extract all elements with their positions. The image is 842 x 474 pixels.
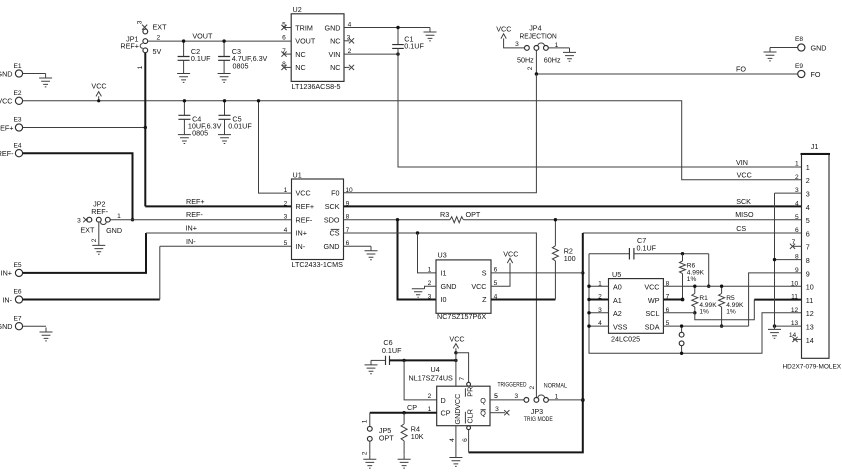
svg-text:24LC025: 24LC025 (611, 335, 640, 344)
svg-text:REF+: REF+ (0, 123, 14, 132)
svg-text:3: 3 (428, 293, 432, 300)
svg-text:E3: E3 (14, 117, 22, 124)
svg-text:2: 2 (361, 451, 368, 455)
ground at U3 pin2 (412, 289, 425, 297)
wire E4 to REF- line (23, 153, 133, 220)
turret E6 (2, 289, 22, 305)
svg-text:11: 11 (791, 294, 798, 301)
wire JP1 pin1 to REF+ vertical (144, 53, 146, 207)
svg-text:D: D (441, 396, 446, 405)
wire E8 to ground (770, 47, 798, 49)
VCC symbol at U4 (449, 335, 464, 353)
svg-text:F0: F0 (331, 189, 339, 198)
junction C7/R6 (681, 252, 684, 255)
VCC symbol at U3 (503, 250, 518, 268)
wire IN- into U1 (160, 245, 292, 247)
junction pin8/ground bus (773, 258, 776, 261)
svg-text:2: 2 (529, 386, 536, 390)
wire JP4 pin1 to ground (548, 47, 569, 49)
svg-text:CP: CP (407, 403, 417, 412)
jumper JP2 REF- select (77, 199, 122, 242)
svg-text:VCC: VCC (453, 394, 462, 409)
junction C7 branch at VCC line (707, 285, 710, 288)
svg-text:NC: NC (330, 63, 340, 72)
wire VIN net to J1 pin1 (398, 48, 802, 167)
pin 7 U2 NC no-connect (281, 48, 291, 57)
capacitor C3 (218, 39, 267, 70)
svg-text:Z: Z (482, 295, 487, 304)
wire U3 Z pin4 (491, 299, 555, 301)
ground at J1 bus (768, 325, 781, 338)
svg-text:E1: E1 (14, 63, 22, 70)
ground at C6 (365, 360, 378, 373)
jumper JP3 TRIG MODE (494, 382, 567, 423)
connector J1 HD2X7-079-MOLEX (783, 142, 842, 371)
wire SDO/MISO net right of R3 (463, 219, 801, 221)
capacitor C2 (178, 39, 211, 69)
svg-text:GND: GND (106, 226, 122, 235)
svg-text:U5: U5 (612, 270, 621, 279)
junction D tie (402, 359, 405, 362)
wire E7 to ground (23, 325, 46, 327)
svg-text:S: S (482, 269, 487, 278)
svg-text:2: 2 (428, 393, 432, 400)
svg-text:SCK: SCK (325, 202, 340, 211)
svg-text:10: 10 (791, 280, 799, 287)
svg-text:NC: NC (295, 50, 305, 59)
svg-text:0.1UF: 0.1UF (382, 346, 402, 355)
ground at JP5 (363, 455, 376, 468)
svg-text:SCL: SCL (646, 309, 660, 318)
svg-text:VCC: VCC (91, 82, 106, 91)
svg-text:VOUT: VOUT (295, 37, 316, 46)
svg-text:1: 1 (555, 393, 559, 400)
svg-text:11: 11 (806, 296, 813, 305)
svg-text:WP: WP (648, 296, 660, 305)
svg-text:SDA: SDA (645, 323, 660, 332)
svg-text:TRIGGERED: TRIGGERED (498, 382, 528, 388)
svg-text:3: 3 (806, 190, 810, 199)
VCC symbol on rail (91, 82, 106, 103)
svg-text:2: 2 (806, 176, 810, 185)
svg-text:TRIG MODE: TRIG MODE (524, 417, 553, 423)
junction CP/R4 (402, 411, 405, 414)
junction SDO drop (396, 218, 399, 221)
ground at R4 (398, 455, 411, 468)
svg-text:3: 3 (284, 214, 288, 221)
svg-text:EXT: EXT (153, 22, 168, 31)
svg-text:0.1UF: 0.1UF (191, 54, 211, 63)
pin 7 J1 no-connect (790, 244, 802, 249)
svg-text:VCC: VCC (737, 171, 752, 180)
svg-text:LTC2433-1CMS: LTC2433-1CMS (292, 260, 344, 269)
wire U1 GND pin6 (344, 245, 372, 247)
wire U3 S pin6 (491, 272, 583, 274)
svg-text:60Hz: 60Hz (544, 56, 561, 65)
svg-text:U3: U3 (438, 251, 447, 260)
svg-text:0805: 0805 (192, 129, 208, 138)
junction JP3 pin1 (581, 398, 585, 402)
wire U5 SDA pin5 to J1 pin9 (663, 273, 801, 326)
wire U4 CLR pin6 down (468, 430, 470, 453)
op-amp U2 LT1236ACS8-5 (291, 5, 344, 91)
svg-text:6: 6 (806, 229, 810, 238)
svg-text:NC: NC (330, 37, 340, 46)
turret E5 (1, 262, 23, 278)
svg-text:0.01UF: 0.01UF (228, 122, 252, 131)
jumper JP1 REF+ select (120, 20, 167, 69)
svg-text:7: 7 (806, 243, 810, 252)
ground at C3 (218, 69, 231, 82)
wire JP3 pin1 to select vertical (548, 399, 582, 401)
pin 4 U2 GND wire (344, 21, 430, 28)
svg-text:5V: 5V (153, 47, 162, 56)
ground at JP4 (563, 48, 576, 61)
svg-text:HD2X7-079-MOLEX: HD2X7-079-MOLEX (783, 364, 842, 371)
wire C6 to VCC node (390, 359, 456, 361)
pin 2 U2 VIN wire (344, 48, 398, 55)
wire U4 GND pin4 (455, 426, 457, 453)
wire IN+ into U1 (146, 232, 292, 234)
svg-text:VIN: VIN (736, 158, 748, 167)
turret E7 (0, 315, 23, 331)
svg-text:2: 2 (157, 35, 161, 42)
junction S line (581, 271, 584, 274)
svg-text:A0: A0 (613, 283, 622, 292)
wire E6 to IN- line (23, 299, 160, 301)
svg-text:1: 1 (284, 187, 288, 194)
svg-text:6: 6 (282, 35, 286, 42)
svg-text:9: 9 (795, 267, 799, 274)
junction VCC/U1 branch (257, 99, 260, 102)
svg-text:REF+: REF+ (186, 197, 205, 206)
svg-text:1: 1 (428, 267, 432, 274)
svg-text:A1: A1 (613, 296, 622, 305)
wire VCC branch to U1 pin1 (259, 101, 292, 193)
eeprom U5 24LC025 (598, 270, 670, 344)
svg-text:2: 2 (284, 200, 288, 207)
svg-text:1: 1 (137, 65, 144, 69)
pin 8 U2 NC no-connect (281, 61, 291, 70)
svg-text:9: 9 (806, 269, 810, 278)
svg-text:14: 14 (806, 336, 814, 345)
wire JP2 pin1 REF- line to U1 (110, 219, 291, 221)
svg-text:0805: 0805 (233, 61, 249, 70)
pin 5 U2 TRIM no-connect (281, 21, 291, 30)
svg-text:0.1UF: 0.1UF (637, 243, 657, 252)
pin 3 U4 Qbar no-connect (490, 410, 509, 415)
svg-text:3: 3 (137, 20, 144, 24)
svg-text:FO: FO (811, 70, 821, 79)
svg-text:IN+: IN+ (186, 223, 197, 232)
ground at U4 (449, 453, 462, 466)
svg-text:REJECTION: REJECTION (520, 32, 557, 41)
svg-text:50Hz: 50Hz (517, 56, 534, 65)
svg-text:3: 3 (515, 41, 519, 48)
svg-text:2: 2 (795, 174, 799, 181)
svg-text:GND: GND (0, 69, 13, 78)
svg-text:E4: E4 (14, 142, 22, 149)
ground at E1 (39, 74, 52, 87)
svg-text:VIN: VIN (329, 50, 341, 59)
svg-text:VCC: VCC (0, 97, 13, 106)
svg-text:J1: J1 (811, 142, 819, 151)
svg-text:R6: R6 (687, 262, 696, 269)
svg-text:CS: CS (330, 229, 340, 238)
svg-text:GND: GND (453, 409, 462, 425)
svg-text:IN-: IN- (2, 295, 12, 304)
capacitor C1 (392, 26, 424, 56)
svg-text:LT1236ACS8-5: LT1236ACS8-5 (292, 82, 341, 91)
svg-text:1%: 1% (687, 276, 697, 283)
svg-text:CP: CP (441, 409, 451, 418)
resistor R4 (401, 413, 424, 455)
svg-text:MISO: MISO (735, 210, 754, 219)
junction VCC/PR branch (454, 351, 457, 354)
svg-text:6: 6 (795, 227, 799, 234)
pin numbers J1 outside (789, 161, 799, 340)
junction pin13/ground bus (773, 324, 776, 327)
svg-text:IN+: IN+ (1, 269, 12, 278)
ground at U1 pin6 (365, 246, 378, 259)
wire U3 VCC pin5 (491, 268, 510, 287)
turret E3 (0, 117, 23, 133)
wire E5 to IN+ line (23, 233, 146, 273)
svg-text:SDO: SDO (324, 215, 340, 224)
wire U5 WP pin7 (663, 299, 682, 301)
svg-text:Q: Q (480, 396, 486, 405)
svg-text:5: 5 (494, 393, 498, 400)
svg-text:5: 5 (795, 214, 799, 221)
wire CP line (370, 412, 437, 414)
junction CS drop (416, 231, 419, 234)
svg-text:TRIM: TRIM (295, 23, 313, 32)
svg-text:CLR: CLR (465, 409, 474, 423)
capacitor C5 (219, 99, 253, 130)
svg-text:14: 14 (789, 332, 797, 339)
junction WP/R6 (681, 298, 685, 302)
svg-text:3: 3 (495, 406, 499, 413)
svg-text:REF-: REF- (186, 210, 203, 219)
capacitor C6 (371, 338, 402, 365)
wire C7 branch down to VCC line (708, 254, 710, 287)
junction VCC/C6 (454, 359, 457, 362)
pin 14 J1 no-connect (792, 337, 801, 342)
svg-text:7: 7 (459, 377, 466, 381)
capacitor C7 (589, 236, 709, 259)
svg-text:4: 4 (806, 203, 810, 212)
svg-text:I1: I1 (441, 269, 447, 278)
svg-text:1: 1 (117, 213, 121, 220)
turret E2 (0, 90, 23, 106)
svg-text:IN-: IN- (186, 237, 196, 246)
svg-text:GND: GND (441, 282, 457, 291)
resistor R3 (OPT) (440, 210, 481, 223)
svg-text:E7: E7 (14, 315, 22, 322)
wire FO node down to U1 F0 (344, 74, 537, 193)
svg-text:12: 12 (806, 309, 814, 318)
resistor R6 (680, 254, 705, 300)
svg-text:NORMAL: NORMAL (544, 383, 568, 389)
svg-text:1%: 1% (726, 309, 736, 316)
junction FO node (535, 72, 538, 75)
jumper JP5 (OPT) (361, 413, 394, 455)
flip-flop U4 NL17SZ74US (409, 365, 500, 442)
wire CS net J1 side (583, 232, 802, 234)
svg-text:E2: E2 (14, 90, 22, 97)
svg-text:E8: E8 (795, 36, 803, 43)
svg-text:OPT: OPT (379, 434, 394, 443)
svg-text:I0: I0 (441, 295, 447, 304)
svg-text:SCK: SCK (736, 197, 751, 206)
svg-text:A2: A2 (613, 309, 622, 318)
svg-text:VCC: VCC (449, 335, 464, 344)
ground at C5 (218, 130, 231, 143)
svg-text:PR: PR (465, 387, 474, 397)
svg-text:4: 4 (795, 201, 799, 208)
svg-text:U2: U2 (293, 5, 302, 14)
wire SCK net (344, 205, 802, 207)
svg-text:REF-: REF- (296, 215, 313, 224)
wire VCC node to U4 D pin2 (404, 360, 437, 400)
svg-text:REF-: REF- (0, 149, 14, 158)
resistor R1 (692, 285, 717, 316)
svg-text:100: 100 (564, 254, 576, 263)
svg-text:REF+: REF+ (120, 42, 139, 51)
svg-text:2: 2 (91, 238, 98, 242)
pin 1 U2 NC no-connect (344, 65, 354, 70)
svg-text:JP3: JP3 (531, 407, 543, 416)
svg-text:0.1UF: 0.1UF (404, 42, 424, 51)
wire CS net U1 side (344, 233, 537, 398)
svg-text:1: 1 (806, 163, 810, 172)
jumper on SDA (write protect option) (679, 324, 684, 355)
svg-text:CS: CS (736, 224, 746, 233)
svg-text:FO: FO (736, 65, 746, 74)
resistor R2 (552, 218, 575, 300)
wire U4 Q pin5 to JP3 (490, 399, 524, 401)
svg-text:10K: 10K (411, 432, 424, 441)
svg-text:VSS: VSS (613, 323, 628, 332)
wire JP2 pin2 to ground (98, 222, 100, 241)
svg-text:8: 8 (806, 256, 810, 265)
wire E3 to JP1 vertical (23, 127, 146, 129)
jumper JP4 REJECTION select (515, 23, 561, 70)
wire J1 pin8 stub (775, 259, 802, 261)
svg-text:R3: R3 (440, 210, 449, 219)
svg-text:1: 1 (795, 161, 799, 168)
svg-text:NC: NC (295, 63, 305, 72)
wire JP1 pin2 to VOUT (148, 40, 291, 42)
svg-text:U1: U1 (293, 170, 302, 179)
wire VCC rail (23, 101, 802, 180)
wire JP4 pin2 to FO node (535, 50, 537, 74)
wire SDO down to U3 I0 (398, 220, 437, 300)
svg-text:1: 1 (361, 419, 368, 423)
svg-text:3: 3 (77, 217, 81, 224)
svg-text:3: 3 (514, 393, 518, 400)
svg-text:NC7SZ157P6X: NC7SZ157P6X (437, 312, 486, 321)
svg-text:E5: E5 (14, 262, 22, 269)
wire VCC branch to U4 PR pin (456, 353, 469, 383)
ground at C2 (177, 69, 190, 82)
ground at E7 (40, 328, 53, 341)
wire U3 GND pin2 (425, 286, 437, 289)
mux U3 NC7SZ157P6X (428, 251, 498, 322)
wire VCC down to U4 VCC pin (455, 353, 457, 386)
pin numbers J1 inside (806, 163, 814, 345)
wire FO net (536, 73, 797, 75)
ground at E8 (764, 48, 777, 61)
ADC U1 LTC2433-1CMS (284, 170, 353, 268)
pin 3 U2 NC no-connect (344, 35, 354, 44)
svg-text:10: 10 (345, 187, 353, 194)
wire CS down to U3 I1 (418, 233, 437, 273)
junction E3/REF+ (144, 126, 147, 129)
ground at U2 pin4 (424, 28, 437, 41)
svg-text:5: 5 (284, 240, 288, 247)
turret E8 (795, 36, 826, 52)
wire U5 SCL pin6 to J1 pin11 (663, 300, 801, 320)
svg-text:VOUT: VOUT (192, 31, 213, 40)
wire REF+ line to U1 (145, 205, 291, 207)
svg-text:E6: E6 (14, 289, 22, 296)
resistor R5 (719, 285, 744, 328)
VCC symbol at JP4 (496, 24, 524, 48)
svg-text:EXT: EXT (80, 226, 95, 235)
svg-text:VCC: VCC (471, 282, 486, 291)
svg-text:2: 2 (527, 66, 534, 70)
turret E1 (0, 63, 23, 78)
ground at JP2 (92, 241, 105, 254)
svg-text:12: 12 (791, 307, 799, 314)
svg-text:1%: 1% (699, 309, 709, 316)
wire U5 VCC line to J1 pin10 (663, 285, 801, 287)
wire select vertical to JP3 pin1 and CLR (469, 233, 583, 452)
svg-text:VCC: VCC (503, 250, 518, 259)
svg-text:VCC: VCC (496, 24, 511, 33)
ground at C4 (178, 130, 191, 143)
svg-text:IN+: IN+ (296, 229, 307, 238)
svg-text:REF+: REF+ (296, 202, 315, 211)
svg-text:REF-: REF- (91, 207, 108, 216)
turret E4 (0, 142, 23, 158)
svg-text:GND: GND (324, 242, 340, 251)
wire J1 pin13 stub (775, 325, 802, 327)
turret E9 (795, 63, 821, 79)
svg-text:VCC: VCC (644, 283, 659, 292)
svg-text:4: 4 (449, 438, 456, 442)
wire J1 ground bus pin3 (775, 193, 802, 326)
svg-text:E9: E9 (795, 63, 803, 70)
wire U5 address bus (587, 254, 801, 354)
svg-text:OPT: OPT (466, 210, 481, 219)
capacitor C4 (178, 99, 221, 138)
svg-text:GND: GND (0, 322, 13, 331)
svg-text:5: 5 (806, 216, 810, 225)
svg-text:NL17SZ74US: NL17SZ74US (409, 374, 454, 383)
svg-text:13: 13 (806, 323, 814, 332)
svg-text:10: 10 (806, 283, 814, 292)
junction E4/REF- (131, 218, 134, 221)
wire E1 to ground (23, 73, 46, 75)
wire SDO/MISO net left of R3 (344, 219, 451, 221)
svg-text:GND: GND (811, 43, 827, 52)
svg-text:IN-: IN- (296, 242, 306, 251)
svg-text:4: 4 (284, 227, 288, 234)
svg-text:VCC: VCC (296, 189, 311, 198)
svg-text:GND: GND (325, 23, 341, 32)
